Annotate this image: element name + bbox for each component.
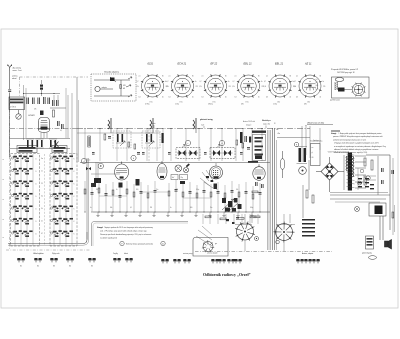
svg-text:45: 45 bbox=[320, 97, 322, 99]
antenna series capacitor bbox=[8, 89, 11, 92]
tube T3 (EF22) bbox=[157, 161, 167, 180]
notes heading underline bbox=[331, 130, 340, 132]
right power components bbox=[364, 158, 366, 166]
inset socket circle bbox=[203, 242, 213, 252]
switch wafer B row 1 bbox=[53, 156, 73, 162]
drop wire x=134 bbox=[133, 184, 135, 212]
band switch column A box bbox=[11, 154, 40, 247]
wire x=358 bbox=[357, 168, 359, 190]
connector circle below transformer bbox=[299, 167, 307, 175]
svg-text:6,3: 6,3 bbox=[296, 97, 298, 99]
tube socket U6 (AZ 11) bbox=[298, 74, 321, 97]
circled letters bbox=[81, 158, 86, 163]
svg-text:1,2k: 1,2k bbox=[264, 86, 267, 88]
svg-text:EF 22: EF 22 bbox=[211, 63, 218, 66]
drop wire x=176 bbox=[175, 180, 177, 212]
svg-text:170v: 170v bbox=[213, 102, 216, 104]
horizontal links in drops band bbox=[99, 195, 127, 197]
speaker bbox=[385, 240, 392, 250]
svg-text:80: 80 bbox=[225, 76, 227, 78]
drop wire x=246 bbox=[245, 182, 247, 212]
svg-text:Głośnik prz: Głośnik prz bbox=[262, 120, 271, 122]
drop wire x=260 bbox=[259, 183, 261, 212]
drop wire x=127 bbox=[126, 181, 128, 212]
svg-text:45: 45 bbox=[258, 97, 260, 99]
drop wire x=204 bbox=[203, 181, 205, 212]
svg-text:1,2k: 1,2k bbox=[166, 86, 169, 88]
tube T2 (ECH21) bbox=[115, 162, 129, 181]
output transformer box bbox=[369, 203, 386, 216]
svg-text:47k: 47k bbox=[34, 109, 37, 111]
svg-text:6,3: 6,3 bbox=[139, 97, 141, 99]
svg-text:EBL 21: EBL 21 bbox=[244, 63, 253, 66]
rail junction dots bbox=[84, 128, 85, 129]
svg-text:Uwagi:: Uwagi: bbox=[331, 133, 337, 135]
svg-text:D: D bbox=[36, 196, 37, 198]
svg-text:80: 80 bbox=[162, 76, 164, 78]
svg-text:Gniazdo adaptera: Gniazdo adaptera bbox=[104, 71, 120, 74]
component above V1 bbox=[40, 111, 44, 116]
contact symbol S4 bbox=[66, 258, 74, 262]
contact right 231 bbox=[227, 259, 235, 263]
terminal strip dark dashes bbox=[358, 178, 362, 179]
coil bowtie left of T1 bbox=[86, 167, 91, 170]
switch wafer A row 1 bbox=[14, 156, 33, 162]
svg-text:S5: S5 bbox=[91, 266, 93, 268]
resistor right edge bbox=[392, 212, 394, 218]
circled P note bbox=[120, 241, 124, 245]
contact symbol S5 bbox=[88, 258, 96, 262]
bottom-right ellipse label bbox=[369, 256, 377, 260]
electrolytic x=241 bbox=[240, 132, 243, 143]
svg-text:5k: 5k bbox=[41, 208, 43, 210]
dark blob in box bbox=[338, 88, 345, 92]
contact right 238 bbox=[234, 259, 242, 263]
contact mid2 187 bbox=[183, 259, 191, 263]
svg-text:b: b bbox=[133, 158, 134, 160]
svg-text:1,2w: 1,2w bbox=[316, 88, 319, 90]
socket1 lead down bbox=[244, 240, 246, 251]
rail y=133 bbox=[77, 132, 160, 134]
svg-text:0,7: 0,7 bbox=[137, 81, 139, 83]
drop wire x=218 bbox=[217, 182, 219, 212]
chassis double line bottom-left bbox=[8, 232, 87, 244]
svg-text:1,2k: 1,2k bbox=[294, 86, 297, 88]
column A wire x=33 bbox=[32, 154, 34, 245]
B+ rail y=128 bbox=[77, 128, 310, 130]
svg-text:215: 215 bbox=[196, 86, 199, 88]
svg-text:D: D bbox=[36, 209, 37, 211]
dark comps left of label block bbox=[244, 136, 247, 142]
svg-text:S4: S4 bbox=[69, 266, 71, 268]
svg-text:80: 80 bbox=[320, 76, 322, 78]
svg-text:4,4: 4,4 bbox=[316, 79, 318, 81]
cable bundle bbox=[267, 130, 269, 250]
tall box right bbox=[311, 144, 321, 166]
svg-text:45: 45 bbox=[192, 97, 194, 99]
svg-text:c: c bbox=[188, 143, 189, 145]
drop wire x=113 bbox=[112, 182, 114, 212]
ground rail y=212 bbox=[93, 211, 270, 213]
drop wire x=106 bbox=[105, 184, 107, 212]
drop wire x=148 bbox=[147, 185, 149, 212]
svg-text:1n: 1n bbox=[216, 189, 218, 191]
svg-text:24/7/1958 przy wyjś. W: 24/7/1958 przy wyjś. W bbox=[337, 71, 355, 74]
trimmer circled-X 2 bbox=[183, 167, 188, 172]
contact mid2 177 bbox=[173, 259, 181, 263]
chassis dashed boundary top-left bbox=[20, 76, 89, 78]
switch wafer B row 4 bbox=[53, 193, 73, 199]
svg-text:270ma: 270ma bbox=[208, 104, 213, 106]
switch wafer A row 7 bbox=[14, 231, 33, 237]
RF chokes on rail bbox=[108, 118, 111, 129]
svg-text:470: 470 bbox=[123, 85, 126, 87]
big socket bottom view 2 bbox=[274, 222, 295, 243]
hatched resistor in box bbox=[335, 82, 338, 90]
svg-text:470: 470 bbox=[304, 104, 307, 106]
resistor cluster x=128-140 y=140-160 bbox=[128, 142, 130, 147]
svg-text:80: 80 bbox=[258, 76, 260, 78]
svg-text:50k: 50k bbox=[236, 189, 239, 191]
magic eye tube socket bbox=[352, 83, 366, 97]
svg-text:Układ styków: Układ styków bbox=[33, 252, 44, 255]
svg-text:25n: 25n bbox=[210, 207, 213, 209]
svg-text:1.70a: 1.70a bbox=[273, 104, 277, 106]
coil x=162 bbox=[162, 133, 164, 143]
bundle dashed companion bbox=[276, 140, 278, 250]
svg-text:2,1: 2,1 bbox=[235, 76, 237, 78]
pickup box resistor bbox=[120, 85, 122, 89]
socket2 lead down bbox=[283, 241, 285, 252]
column B wire x=54 bbox=[53, 154, 55, 245]
vertical wires detector area bbox=[202, 214, 204, 224]
circled dot bbox=[255, 237, 259, 241]
svg-text:170v: 170v bbox=[150, 102, 153, 104]
svg-text:D: D bbox=[36, 234, 37, 236]
svg-text:0,1: 0,1 bbox=[41, 196, 43, 198]
wire x=394.5 bbox=[394, 205, 396, 232]
wire x=23.5 bbox=[23, 85, 25, 140]
wire y=137 bbox=[277, 137, 310, 139]
contact symbol S3 bbox=[50, 258, 58, 262]
ground stubs below rail bbox=[97, 212, 99, 216]
components right of V1 bbox=[51, 100, 54, 106]
svg-text:170v: 170v bbox=[246, 102, 249, 104]
tube socket U2 (ECH 21) bbox=[171, 74, 194, 97]
svg-text:AZ 11: AZ 11 bbox=[304, 63, 312, 66]
svg-text:wyłącz 4Ω: wyłącz 4Ω bbox=[263, 124, 271, 126]
svg-text:1n: 1n bbox=[90, 207, 92, 209]
cathode resistor cluster bbox=[136, 179, 140, 186]
coil pair x=147 bbox=[146, 134, 148, 142]
contact mid2 165 bbox=[161, 259, 169, 263]
power transformer core bbox=[348, 153, 352, 191]
svg-text:2n: 2n bbox=[41, 221, 43, 223]
resistor stack x=237 bbox=[236, 140, 238, 145]
drop wire x=197 bbox=[196, 185, 198, 212]
IF2 coil a bbox=[213, 150, 216, 156]
small circle power bbox=[360, 169, 364, 173]
svg-text:EBL 21: EBL 21 bbox=[275, 63, 284, 66]
wire x=68 bbox=[67, 95, 69, 138]
svg-text:zmiana pracy: zmiana pracy bbox=[183, 253, 193, 255]
svg-text:dobór: dobór bbox=[124, 253, 129, 255]
drop wire x=85 bbox=[84, 181, 86, 212]
drop wire x=225 bbox=[224, 185, 226, 212]
svg-text:80: 80 bbox=[192, 76, 194, 78]
svg-text:6,3: 6,3 bbox=[169, 97, 171, 99]
svg-text:2,1: 2,1 bbox=[266, 76, 268, 78]
svg-text:Odbiornik radiowy „Orzeł”: Odbiornik radiowy „Orzeł” bbox=[203, 272, 251, 277]
dashed shield box oscillator bbox=[113, 131, 131, 148]
IF2 coil b bbox=[224, 150, 227, 156]
svg-text:6,3: 6,3 bbox=[266, 97, 268, 99]
contact right2 308 bbox=[304, 259, 312, 263]
diag wires detector bbox=[200, 170, 214, 188]
boxed label right (twornica) bbox=[52, 146, 67, 153]
svg-text:4Ω: 4Ω bbox=[312, 157, 314, 159]
feeder wires x=302-320 bbox=[301, 126, 303, 148]
svg-text:K: K bbox=[74, 196, 75, 198]
coil L3 bbox=[50, 140, 52, 147]
svg-text:W rapede 6451/7808/na, pomiar: W rapede 6451/7808/na, pomiar UP bbox=[331, 68, 359, 71]
oval vent on box top bbox=[335, 78, 344, 82]
transformer connection wires bbox=[355, 155, 366, 157]
svg-text:ECH 21: ECH 21 bbox=[178, 63, 187, 66]
IF1 coil a bbox=[179, 150, 182, 156]
drop wire x=120 bbox=[119, 186, 121, 212]
components above sockets bbox=[205, 216, 211, 218]
svg-text:1,2k: 1,2k bbox=[136, 86, 139, 88]
transformer windings left bbox=[346, 156, 348, 171]
svg-text:S3: S3 bbox=[53, 266, 55, 268]
drop wire x=169 bbox=[168, 183, 170, 212]
drop wire x=99 bbox=[98, 180, 100, 212]
svg-text:1n: 1n bbox=[41, 171, 43, 173]
tube T5 (EBL21 bottom view) bbox=[210, 166, 223, 179]
switch wafer B row 5 bbox=[53, 206, 73, 212]
heater wires top right bbox=[363, 175, 376, 177]
column A wire x=21 bbox=[20, 154, 22, 245]
svg-text:0,65: 0,65 bbox=[316, 85, 319, 87]
switch wafer B row 7 bbox=[53, 231, 73, 237]
wires above big sockets bbox=[244, 214, 246, 222]
vertical shield line x=77 bbox=[76, 77, 78, 162]
contact symbol S1 bbox=[17, 258, 25, 262]
svg-text:100p: 100p bbox=[250, 207, 253, 209]
switch wafer B row 3 bbox=[53, 181, 73, 187]
svg-text:K: K bbox=[74, 184, 75, 186]
contact right2 300 bbox=[296, 259, 304, 263]
svg-text:d: d bbox=[221, 143, 222, 145]
svg-text:1,2k: 1,2k bbox=[232, 86, 235, 88]
svg-text:Wyłącznik: Wyłącznik bbox=[52, 253, 60, 255]
field coil component bbox=[366, 236, 374, 249]
svg-text:D: D bbox=[36, 184, 37, 186]
svg-text:300: 300 bbox=[190, 207, 193, 209]
pilot lamp circle bbox=[355, 207, 360, 212]
svg-text:6J31: 6J31 bbox=[148, 63, 154, 66]
tube socket U1 (6J31) bbox=[141, 74, 164, 97]
contact mid 129 bbox=[125, 258, 133, 262]
svg-text:25p: 25p bbox=[181, 177, 184, 179]
vertical drops from B+ rail bbox=[84, 129, 86, 162]
svg-text:6,3: 6,3 bbox=[235, 97, 237, 99]
svg-text:K: K bbox=[74, 171, 75, 173]
band switch column B box bbox=[50, 154, 77, 247]
svg-text:w szczególności zgodzonymi na: w szczególności zgodzonymi na zaćmiarę z… bbox=[334, 146, 386, 148]
column A wire x=15 bbox=[14, 154, 16, 245]
svg-text:5n: 5n bbox=[116, 189, 118, 191]
svg-text:ECH21: ECH21 bbox=[29, 115, 35, 117]
contact glosnik 222 bbox=[218, 259, 226, 263]
svg-text:D: D bbox=[36, 159, 37, 161]
svg-text:Układ lamp od dołu: Układ lamp od dołu bbox=[307, 123, 325, 125]
switch wafer A row 4 bbox=[14, 193, 33, 199]
svg-text:470: 470 bbox=[241, 104, 244, 106]
wire x=309 bbox=[308, 160, 310, 190]
svg-text:D Ś K G: D Ś K G bbox=[10, 106, 17, 109]
pickup box divider bbox=[120, 80, 122, 96]
svg-text:0,7: 0,7 bbox=[167, 81, 169, 83]
trimmer circled-X 1 bbox=[175, 165, 182, 172]
small boxes below trimmers bbox=[171, 175, 178, 180]
column A wire x=27 bbox=[26, 154, 28, 245]
pickup socket dashed box bbox=[91, 74, 136, 101]
svg-text:wbud.: wbud. bbox=[12, 78, 17, 80]
svg-text:K: K bbox=[74, 209, 75, 211]
drop wire x=190 bbox=[189, 182, 191, 212]
svg-text:2,1: 2,1 bbox=[202, 76, 204, 78]
antenna bbox=[8, 65, 12, 71]
lines below power bbox=[330, 192, 388, 194]
V1 cathode dark blob bbox=[41, 127, 48, 130]
svg-text:1,2k: 1,2k bbox=[199, 86, 202, 88]
pickup connector circle bbox=[95, 86, 100, 91]
wire y=93.5 bbox=[24, 93, 60, 95]
switch wafer A row 2 bbox=[14, 168, 33, 174]
dark cluster below T1 bbox=[94, 178, 101, 183]
svg-text:0,7: 0,7 bbox=[233, 81, 235, 83]
tube socket U4 (EBL 21) bbox=[237, 74, 260, 97]
svg-text:215: 215 bbox=[229, 86, 232, 88]
range switch table box bbox=[9, 97, 25, 110]
pickup box switch component bbox=[110, 78, 115, 82]
circled trimmer near T1 bbox=[98, 163, 103, 168]
svg-text:1.70a: 1.70a bbox=[175, 104, 179, 106]
cap right edge bbox=[391, 170, 394, 174]
fuse oval bbox=[280, 159, 285, 170]
wire y=174 bbox=[91, 173, 120, 175]
V1 pin wires down bbox=[40, 132, 42, 138]
svg-text:225: 225 bbox=[316, 82, 319, 84]
pickup box top wire bbox=[94, 79, 130, 81]
coil pair x=118 bbox=[117, 134, 119, 142]
svg-text:25: 25 bbox=[41, 183, 43, 185]
small caps upper band bbox=[92, 151, 95, 154]
chassis dash-dot line horizontal y=128 bbox=[10, 128, 77, 130]
switch wafer A row 5 bbox=[14, 206, 33, 212]
svg-text:S1: S1 bbox=[20, 266, 22, 268]
svg-text:S2: S2 bbox=[37, 266, 39, 268]
tube socket U5 (EBL 21) bbox=[268, 74, 291, 97]
contact mid 117 bbox=[113, 258, 121, 262]
svg-text:Zasilacz: Zasilacz bbox=[313, 140, 319, 142]
svg-text:zewn. 1 szt: zewn. 1 szt bbox=[13, 69, 22, 72]
wire x=26 bbox=[25, 88, 27, 138]
component below T5 bbox=[214, 184, 218, 190]
chassis rounded border notes box bbox=[92, 222, 189, 247]
dashed divider x=149 bbox=[148, 129, 150, 164]
svg-text:zw: zw bbox=[312, 147, 314, 149]
svg-text:Uwaga!: Uwaga! bbox=[97, 227, 103, 229]
contact glosnik 215 bbox=[211, 259, 219, 263]
double chassis line left x=87 bbox=[86, 158, 88, 240]
bottom-left dash-dot line bbox=[6, 249, 90, 251]
svg-text:4a7: 4a7 bbox=[172, 177, 175, 179]
svg-text:D: D bbox=[36, 221, 37, 223]
drop wire x=211 bbox=[210, 184, 212, 212]
inset socket box bbox=[193, 238, 228, 257]
wire x=393 bbox=[392, 158, 394, 235]
circled dot 2 bbox=[276, 240, 280, 244]
potentiometer/AVC dark cluster bbox=[222, 198, 226, 203]
svg-text:D: D bbox=[36, 171, 37, 173]
svg-text:25n: 25n bbox=[156, 189, 159, 191]
svg-text:głośność wstęg: głośność wstęg bbox=[200, 118, 213, 121]
tube V1 envelope bbox=[39, 118, 50, 131]
wire y=162 bbox=[80, 162, 270, 164]
dark label Twornica bbox=[252, 131, 266, 133]
bridge rectifier bbox=[321, 163, 338, 180]
svg-text:2,1: 2,1 bbox=[139, 76, 141, 78]
lower mid-right components bbox=[306, 190, 308, 198]
wires top-left bbox=[9, 100, 11, 157]
svg-text:K: K bbox=[74, 159, 75, 161]
tuning cap circle bbox=[16, 114, 21, 119]
tube socket U3 (EF 22) bbox=[204, 74, 227, 97]
svg-text:2,1: 2,1 bbox=[169, 76, 171, 78]
circled P right bbox=[294, 142, 298, 146]
big socket bottom view 1 bbox=[235, 222, 255, 242]
trimmer arrows bbox=[120, 141, 125, 146]
svg-text:0,7: 0,7 bbox=[294, 81, 296, 83]
svg-text:45: 45 bbox=[162, 97, 164, 99]
svg-text:50k: 50k bbox=[110, 207, 113, 209]
capacitor row above V1 bbox=[26, 98, 29, 105]
pickup box bottom wire bbox=[94, 95, 130, 97]
middle gap dashed wire bbox=[44, 154, 46, 245]
slanted dark blob bbox=[186, 163, 190, 167]
switch wafer A row 6 bbox=[14, 218, 33, 224]
svg-text:45: 45 bbox=[225, 97, 227, 99]
contact right2 316 bbox=[312, 259, 320, 263]
drop wire x=141 bbox=[140, 182, 142, 212]
drop wire x=253 bbox=[252, 186, 254, 212]
svg-text:300: 300 bbox=[136, 189, 139, 191]
coil L1 bbox=[27, 140, 29, 147]
bottom dash line mid bbox=[195, 251, 332, 253]
components above output transformer bbox=[364, 177, 366, 185]
left edge dash-dot boundary bbox=[9, 96, 11, 250]
drop wire x=239 bbox=[238, 184, 240, 212]
switch wafer A row 3 bbox=[14, 181, 33, 187]
wire x=66 bbox=[65, 88, 67, 138]
boxed label left (przelacznik) bbox=[17, 146, 37, 153]
svg-text:głośnik bywały: głośnik bywały bbox=[362, 253, 372, 255]
transformer windings right bbox=[352, 156, 354, 177]
IF transformer box 2 bbox=[210, 148, 235, 159]
